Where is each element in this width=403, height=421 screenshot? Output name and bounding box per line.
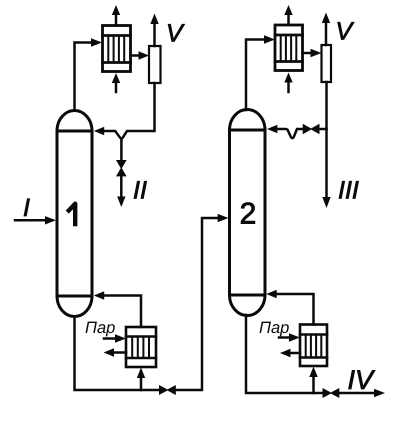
arrowhead stream V up (left) xyxy=(150,14,158,25)
arrowhead into separator S2 xyxy=(311,49,322,57)
arrowhead steam into E4 xyxy=(289,333,300,341)
wire: condenser E1 top vent xyxy=(115,14,118,26)
arrowhead into condenser E2 left xyxy=(264,35,275,43)
wire: separator S2 liquid down through junction to stream III xyxy=(325,82,328,197)
arrowhead condensate out left E3 xyxy=(104,348,115,356)
arrowhead stream III down xyxy=(322,197,330,208)
wire: separator S1 top gas line V xyxy=(153,24,156,46)
arrowhead condensate out left E4 xyxy=(280,349,291,357)
arrowhead reflux into column 1 top xyxy=(94,127,104,135)
wire: distillate branch down from loop to valve xyxy=(120,139,123,160)
arrowhead stream V up (right) xyxy=(322,13,330,24)
svg-text:II: II xyxy=(133,177,147,205)
wire: separator S2 top gas line V xyxy=(325,23,328,45)
wire: condensate out of reboiler E3 xyxy=(115,351,127,354)
wire: condensate out of reboiler E4 xyxy=(291,352,300,355)
wire: reflux branch from junction through valve and loop dip to column 2 xyxy=(320,128,327,131)
arrowhead coolant up into E2 xyxy=(284,73,292,83)
wire: steam into reboiler E4 xyxy=(279,336,290,339)
svg-text:V: V xyxy=(166,20,185,48)
wire: condenser E2 top vent xyxy=(287,14,290,25)
arrowhead up into E3 xyxy=(137,368,145,379)
condenser E2 (shell-and-tube heat exchanger, right) xyxy=(275,25,303,71)
arrowhead coolant up into E1 xyxy=(112,73,120,83)
wire: column 2 overhead vapor to condenser E2 xyxy=(246,40,265,111)
column 1 (distillation column K1 shell) xyxy=(57,110,92,316)
arrowhead condenser E2 vent up xyxy=(284,5,292,15)
wire: liquid up into reboiler E3 bottom xyxy=(140,379,143,391)
wire: column 2 bottoms down, along bottom to valve xyxy=(246,315,323,393)
reboiler E4 (shell-and-tube heat exchanger, bottom right) xyxy=(300,325,327,367)
wire: coolant into condenser E1 bottom xyxy=(115,82,118,92)
condenser E1 tubes xyxy=(108,36,124,62)
valve V3 (horizontal valve on column 2 reflux) xyxy=(310,124,319,134)
wire: condenser E1 outlet to separator S1 xyxy=(131,54,141,57)
arrowhead stream IV right xyxy=(374,389,385,397)
valve V4 (horizontal valve on stream IV) xyxy=(323,388,332,398)
arrowhead into separator S1 xyxy=(139,51,150,59)
svg-text:I: I xyxy=(23,194,30,222)
valve V1 (vertical globe valve on stream II) xyxy=(116,160,127,169)
arrowhead reflux into column 2 top xyxy=(267,125,277,133)
arrowhead feed I into column 1 xyxy=(45,216,56,224)
condenser E2 tubes xyxy=(281,36,297,62)
wire: feed stream I xyxy=(15,219,46,222)
reboiler E3 (shell-and-tube heat exchanger, bottom left) xyxy=(126,327,156,367)
reboiler E3 tubes xyxy=(132,337,149,358)
reboiler E4 tubes xyxy=(306,335,322,357)
separator S1 (narrow vertical drum, left) xyxy=(149,46,161,83)
wire: separator S1 liquid down and reflux line with loop dip to column 1 xyxy=(104,83,155,138)
arrowhead return into column 1 bottom xyxy=(94,291,104,299)
svg-text:IV: IV xyxy=(348,365,377,395)
wire: bottoms to column 2 feed riser xyxy=(176,218,218,390)
svg-text:III: III xyxy=(338,177,359,205)
svg-text:Пар: Пар xyxy=(85,319,115,337)
wire: column 1 overhead vapor to condenser E1 xyxy=(75,43,93,111)
wire: column 1 bottoms down, along bottom to valve xyxy=(75,317,160,391)
arrowhead condenser E1 vent up xyxy=(112,5,120,15)
wire: reboiler E3 vapor return to column 1 xyxy=(104,296,141,328)
svg-text:Пар: Пар xyxy=(259,319,289,337)
label 1 (column 1 number) xyxy=(69,204,75,224)
wire: reboiler E4 vapor return to column 2 xyxy=(277,294,314,325)
arrowhead feed into column 2 xyxy=(218,214,229,222)
wire: steam into reboiler E3 xyxy=(104,337,116,340)
arrowhead into condenser E1 left xyxy=(91,38,102,46)
svg-text:2: 2 xyxy=(240,198,257,231)
column 2 (distillation column K2 shell) xyxy=(230,109,266,315)
arrowhead stream II down xyxy=(117,197,125,208)
wire: stream II down xyxy=(120,176,123,196)
separator S2 (narrow vertical drum, right) xyxy=(322,45,332,82)
valve V2 (horizontal valve on column 1 bottoms) xyxy=(159,385,168,395)
wire: coolant into condenser E2 bottom xyxy=(287,82,290,92)
arrowhead steam into E3 xyxy=(115,334,126,342)
arrowhead up into E4 xyxy=(309,367,317,378)
wire: reflux line with loop dip into column 2 xyxy=(278,129,303,138)
wire: liquid up into reboiler E4 bottom xyxy=(312,378,315,393)
svg-text:V: V xyxy=(336,18,355,46)
arrowhead return into column 2 bottom xyxy=(266,290,276,298)
condenser E1 (shell-and-tube heat exchanger, left) xyxy=(103,26,131,72)
wire: condenser E2 outlet to separator S2 xyxy=(303,52,312,55)
wire: stream IV out right xyxy=(339,392,374,395)
